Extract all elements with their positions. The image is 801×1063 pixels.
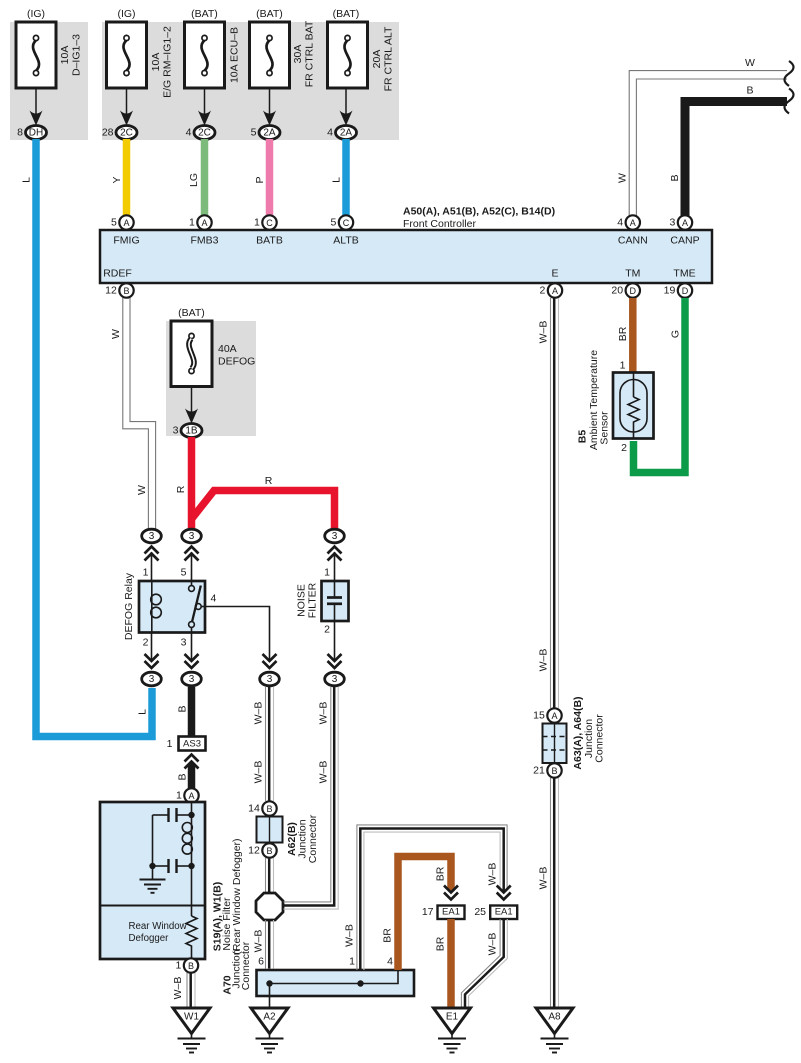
svg-text:R: R — [265, 475, 273, 487]
svg-text:3: 3 — [669, 217, 675, 229]
svg-text:A8: A8 — [548, 1012, 561, 1023]
svg-text:CANP: CANP — [670, 235, 699, 247]
wire fuse5 to terminal 2A (arrow) — [340, 88, 353, 126]
wire Y yellow DH fuse2 to FMIG — [111, 139, 127, 216]
svg-text:E/G RM–IG1–2: E/G RM–IG1–2 — [162, 26, 174, 98]
svg-text:DEFOG: DEFOG — [218, 356, 255, 368]
svg-text:3: 3 — [181, 637, 187, 649]
wire to relay pin 5 — [191, 552, 193, 581]
fuse 10A E/G RM-IG1-2 label (IG) — [117, 8, 135, 20]
svg-text:3: 3 — [332, 531, 338, 542]
svg-text:1B: 1B — [185, 426, 198, 437]
svg-text:5: 5 — [251, 127, 257, 139]
svg-text:E1: E1 — [446, 1012, 459, 1023]
svg-text:Front Controller: Front Controller — [403, 218, 476, 230]
svg-text:8: 8 — [17, 127, 23, 139]
wire G green from TME to sensor pin 2 — [634, 298, 686, 473]
svg-text:B: B — [123, 286, 129, 296]
svg-text:D–IG1–3: D–IG1–3 — [71, 34, 83, 76]
fuse 40A DEFOG label (BAT) — [178, 307, 205, 319]
svg-text:2A: 2A — [263, 128, 276, 139]
wire from relay pin 2 — [145, 633, 159, 669]
relay DEFOG Relay — [123, 567, 217, 649]
svg-text:R: R — [175, 485, 187, 493]
wire W (CAN-) from CANN to right edge — [617, 57, 788, 216]
junction connector A70 — [222, 941, 415, 996]
svg-text:LG: LG — [188, 173, 200, 187]
ground W1 — [173, 1008, 210, 1053]
wire B black from connector to AS3 splice — [177, 687, 192, 737]
wire BR from A70 pin 4 to EA1 17 — [382, 857, 452, 971]
svg-text:12: 12 — [105, 285, 117, 297]
svg-text:W1: W1 — [184, 1012, 199, 1023]
wire W from RDEF to defog relay pin 1 connector — [110, 298, 156, 529]
svg-text:(BAT): (BAT) — [256, 8, 283, 20]
fuse 30A FR CTRL BAT — [250, 20, 316, 88]
wire fuse2 to terminal 2C (arrow) — [120, 88, 133, 126]
pin 14 B junction connector A62 — [248, 801, 277, 815]
junction connector A63(A) A64(B) — [543, 696, 606, 769]
svg-text:A: A — [552, 286, 558, 296]
svg-text:28: 28 — [102, 127, 114, 139]
break symbol W wire — [785, 61, 794, 86]
svg-text:10A: 10A — [59, 46, 71, 65]
fuse block background (engine room fuses) — [102, 22, 399, 140]
wire B (CAN+) from CANP to right edge — [669, 85, 787, 216]
svg-text:ALTB: ALTB — [333, 235, 358, 247]
svg-text:1: 1 — [620, 360, 626, 372]
ground A8 — [536, 1008, 573, 1053]
svg-text:BR: BR — [617, 326, 629, 341]
svg-text:40A: 40A — [218, 343, 237, 355]
svg-text:P: P — [254, 176, 266, 183]
wire to relay pin 1 — [151, 552, 153, 581]
svg-text:(BAT): (BAT) — [333, 8, 360, 20]
terminal 5 2A — [251, 126, 280, 140]
svg-text:B: B — [177, 773, 189, 780]
wire R red from 1B to relay connector and noise filter connector — [175, 437, 335, 528]
terminal 4 2C — [186, 126, 215, 140]
pin 1 A FMB3 — [189, 215, 212, 229]
connector 3 (below relay pin3) — [182, 672, 202, 686]
svg-text:W–B: W–B — [253, 761, 265, 784]
svg-text:BR: BR — [435, 936, 447, 951]
wire BR from EA1 17 to ground E1 — [435, 919, 452, 1007]
wire W-B from A63 to ground A8 — [538, 778, 559, 1007]
svg-text:W–B: W–B — [487, 933, 499, 956]
fuse 40A DEFOG — [171, 321, 255, 387]
pin 21 B junction connector A63 — [533, 763, 562, 777]
svg-text:C: C — [343, 218, 350, 228]
svg-text:5: 5 — [181, 567, 187, 579]
wire L fuse5 to ALTB — [331, 139, 347, 216]
splice octagon (ground joint) — [256, 893, 283, 920]
pin 5 A FMIG — [111, 215, 134, 229]
break symbol B wire — [785, 89, 794, 114]
svg-text:3: 3 — [149, 531, 155, 542]
svg-text:L: L — [21, 177, 33, 183]
pin 1 B rear window defogger — [175, 958, 198, 972]
svg-text:Connector: Connector — [307, 814, 319, 863]
wire LG fuse3 to FMB3 — [188, 139, 205, 216]
wire from relay pin 3 — [185, 633, 199, 669]
svg-text:W–B: W–B — [487, 863, 499, 886]
svg-text:W–B: W–B — [318, 761, 330, 784]
svg-text:3: 3 — [189, 531, 195, 542]
svg-text:1: 1 — [175, 960, 181, 972]
svg-text:1: 1 — [176, 790, 182, 802]
svg-text:A: A — [630, 218, 636, 228]
svg-text:A: A — [188, 791, 194, 801]
fuse 10A ECU-B — [185, 22, 241, 88]
pin 4 A CANN — [617, 215, 640, 229]
svg-text:B: B — [669, 174, 681, 181]
svg-text:Connector: Connector — [240, 941, 252, 990]
svg-text:BR: BR — [382, 928, 394, 943]
svg-text:Connector: Connector — [594, 714, 606, 763]
svg-text:21: 21 — [533, 765, 545, 777]
svg-text:4: 4 — [387, 956, 393, 968]
svg-text:G: G — [670, 330, 682, 338]
wire W-B from connector to junction connector A62 — [253, 687, 274, 801]
svg-text:1: 1 — [167, 738, 173, 750]
svg-text:A: A — [551, 711, 557, 721]
svg-text:1: 1 — [324, 567, 330, 579]
svg-text:L: L — [331, 177, 343, 183]
svg-text:TME: TME — [673, 268, 695, 280]
svg-text:W–B: W–B — [538, 649, 550, 672]
wire from noise filter pin 2 — [328, 621, 342, 668]
pin 12 B junction connector A62 — [248, 843, 277, 857]
svg-text:B: B — [266, 846, 272, 856]
svg-text:6: 6 — [258, 956, 264, 968]
svg-text:30A: 30A — [292, 45, 304, 64]
svg-text:B: B — [746, 85, 753, 97]
svg-text:W: W — [136, 485, 148, 495]
svg-text:A50(A), A51(B), A52(C), B14(D): A50(A), A51(B), A52(C), B14(D) — [403, 206, 555, 218]
svg-text:10A: 10A — [150, 53, 162, 72]
pin 12 B RDEF — [105, 283, 134, 297]
svg-text:5: 5 — [330, 217, 336, 229]
pin 1 C BATB — [254, 215, 277, 229]
wire W-B from A70 pin 1 to EA1 25 — [344, 825, 508, 970]
terminal 4 2A — [327, 126, 356, 140]
svg-text:(IG): (IG) — [117, 8, 135, 20]
connector 3 (relay pin1 side) — [142, 529, 162, 560]
svg-text:3: 3 — [332, 674, 338, 685]
wire from relay pin 4 — [205, 607, 277, 669]
svg-text:A2: A2 — [263, 1012, 276, 1023]
svg-text:FILTER: FILTER — [307, 582, 319, 618]
svg-text:1: 1 — [189, 217, 195, 229]
svg-text:W–B: W–B — [253, 930, 265, 953]
pin 15 A junction connector A63 — [533, 708, 562, 722]
ground E1 — [434, 1008, 471, 1053]
svg-text:B: B — [551, 766, 557, 776]
svg-text:2: 2 — [324, 624, 330, 636]
svg-text:A: A — [201, 218, 207, 228]
svg-text:W–B: W–B — [344, 924, 356, 947]
svg-text:CANN: CANN — [618, 235, 648, 247]
svg-text:DEFOG Relay: DEFOG Relay — [123, 572, 135, 640]
fuse 10A ECU-B label (BAT) — [191, 8, 218, 20]
wire fuse4 to terminal 2A (arrow) — [263, 88, 276, 126]
svg-text:3: 3 — [173, 425, 179, 437]
svg-text:20: 20 — [611, 285, 623, 297]
fuse 20A FR CTRL ALT — [328, 22, 395, 91]
svg-text:2C: 2C — [198, 128, 211, 139]
wire to noise filter pin 1 — [334, 552, 336, 581]
wire BR from TM to ambient temperature sensor pin 1 — [617, 298, 633, 372]
connector 3 (below relay pin2) — [142, 672, 162, 686]
svg-text:W–B: W–B — [172, 977, 184, 1000]
svg-text:2: 2 — [621, 442, 627, 454]
svg-text:14: 14 — [248, 803, 260, 815]
relay switch contacts — [189, 581, 205, 633]
wire L blue from DH to defog relay pin 2 connector — [21, 139, 153, 737]
svg-text:W–B: W–B — [538, 321, 550, 344]
connector 3 (noise filter side) — [325, 529, 345, 560]
A70 internal bus — [266, 970, 398, 1007]
svg-text:W: W — [745, 57, 755, 69]
svg-text:W: W — [110, 329, 122, 339]
svg-text:3: 3 — [189, 674, 195, 685]
rear window defogger S19(A) W1(B) — [100, 802, 243, 959]
svg-text:A: A — [123, 218, 129, 228]
svg-text:L: L — [137, 709, 149, 715]
wire W-B from noise filter connector to octagon — [284, 687, 339, 909]
wire W-B from A62 to splice octagon — [266, 858, 274, 893]
svg-text:FMIG: FMIG — [113, 235, 139, 247]
fuse 30A FR CTRL BAT label (BAT) — [256, 8, 283, 20]
defogger internal noise filter circuit — [149, 802, 194, 873]
svg-text:1: 1 — [143, 567, 149, 579]
pin 1 A rear window defogger — [176, 788, 199, 802]
svg-text:EA1: EA1 — [495, 907, 513, 918]
svg-text:E: E — [551, 268, 558, 280]
svg-text:(IG): (IG) — [27, 8, 45, 20]
svg-text:B5: B5 — [577, 430, 589, 444]
svg-text:TM: TM — [625, 268, 640, 280]
relay coil — [151, 581, 162, 633]
ground A2 — [251, 1008, 288, 1053]
svg-text:19: 19 — [664, 285, 676, 297]
svg-text:5: 5 — [111, 217, 117, 229]
svg-text:FMB3: FMB3 — [190, 235, 218, 247]
terminal 3 1B — [173, 424, 202, 438]
terminal 28 2C — [102, 126, 137, 140]
splice AS3 — [167, 737, 206, 751]
svg-text:Defogger: Defogger — [129, 933, 170, 944]
wire W-B from E pin to junction connector A63 — [538, 298, 559, 708]
svg-text:3: 3 — [149, 674, 155, 685]
svg-text:4: 4 — [617, 217, 623, 229]
svg-text:FR CTRL BAT: FR CTRL BAT — [304, 20, 316, 87]
svg-text:EA1: EA1 — [442, 907, 460, 918]
connector 3 (below noise filter) — [325, 672, 345, 686]
defogger heater element resistor — [186, 866, 197, 959]
pin 3 A CANP — [669, 215, 692, 229]
fuse 10A D-IG1-3 label (IG) — [27, 8, 45, 20]
fuse block background (DEFOG) — [166, 321, 256, 436]
svg-text:C: C — [266, 218, 273, 228]
svg-text:RDEF: RDEF — [103, 268, 132, 280]
pin 5 C ALTB — [330, 215, 353, 229]
svg-text:(BAT): (BAT) — [178, 307, 205, 319]
svg-text:1: 1 — [254, 217, 260, 229]
wire fuse DEFOG to terminal 1B (arrow) — [185, 387, 198, 424]
svg-text:W–B: W–B — [538, 867, 550, 890]
noise filter NOISE FILTER — [296, 567, 349, 636]
svg-text:20A: 20A — [371, 50, 383, 69]
svg-text:W–B: W–B — [253, 702, 265, 725]
fuse block background (IG fuse D-IG1-3) — [10, 22, 88, 140]
wire B black from AS3 to defogger — [177, 755, 199, 790]
svg-text:D: D — [682, 286, 689, 296]
fuse 10A E/G RM-IG1-2 — [107, 22, 174, 98]
terminal 8 DH — [17, 126, 46, 140]
svg-text:(BAT): (BAT) — [191, 8, 218, 20]
wire W-B defogger to ground W1 — [172, 973, 195, 1007]
svg-text:A: A — [682, 218, 688, 228]
connector 3 (below relay pin4) — [260, 672, 280, 686]
svg-text:B: B — [188, 961, 194, 971]
svg-text:10A ECU–B: 10A ECU–B — [229, 27, 241, 83]
svg-text:B: B — [266, 804, 272, 814]
svg-text:AS3: AS3 — [183, 739, 201, 750]
wire W-B from EA1 25 to ground E1 — [461, 919, 507, 1007]
sensor B5 ambient temperature sensor — [577, 350, 654, 454]
svg-text:2: 2 — [143, 637, 149, 649]
svg-text:1: 1 — [349, 956, 355, 968]
fuse 10A D-IG1-3 — [16, 22, 83, 88]
front controller A50(A) A51(B) A52(C) B14(D) — [100, 206, 712, 284]
pin 20 D TM — [611, 283, 640, 297]
svg-text:2C: 2C — [120, 128, 133, 139]
wire fuse3 to terminal 2C (arrow) — [198, 88, 211, 126]
svg-text:FR CTRL ALT: FR CTRL ALT — [383, 26, 395, 91]
svg-text:Rear Window: Rear Window — [129, 921, 188, 932]
defogger internal ground — [140, 866, 166, 893]
svg-text:W–B: W–B — [318, 702, 330, 725]
svg-text:25: 25 — [474, 906, 486, 918]
svg-text:(Rear Window Defogger): (Rear Window Defogger) — [231, 838, 243, 954]
svg-text:B: B — [177, 705, 189, 712]
svg-text:4: 4 — [211, 593, 217, 605]
svg-text:4: 4 — [327, 127, 333, 139]
wire fuse1 to terminal DH (arrow) — [30, 88, 43, 126]
svg-text:15: 15 — [533, 710, 545, 722]
svg-text:D: D — [630, 286, 637, 296]
pin 19 D TME — [664, 283, 693, 297]
svg-text:Sensor: Sensor — [599, 411, 611, 445]
svg-text:12: 12 — [248, 845, 260, 857]
svg-text:2: 2 — [539, 285, 545, 297]
connector 3 (relay pin5 side) — [182, 529, 202, 560]
svg-text:17: 17 — [422, 906, 434, 918]
svg-text:4: 4 — [186, 127, 192, 139]
connector 25 EA1 — [474, 886, 517, 920]
svg-text:2A: 2A — [340, 128, 353, 139]
svg-text:W: W — [617, 173, 629, 183]
svg-text:3: 3 — [267, 674, 273, 685]
pin 2 A E — [539, 283, 562, 297]
wire P fuse4 to BATB — [254, 139, 270, 216]
svg-text:BATB: BATB — [256, 235, 283, 247]
svg-text:BR: BR — [435, 866, 447, 881]
fuse 20A FR CTRL ALT label (BAT) — [333, 8, 360, 20]
wire W-B from octagon to junction connector A70 pin 6 — [253, 920, 274, 969]
junction connector A62(B) — [257, 814, 320, 863]
svg-text:DH: DH — [29, 128, 43, 139]
svg-text:Y: Y — [111, 176, 123, 183]
connector 17 EA1 — [422, 886, 465, 920]
